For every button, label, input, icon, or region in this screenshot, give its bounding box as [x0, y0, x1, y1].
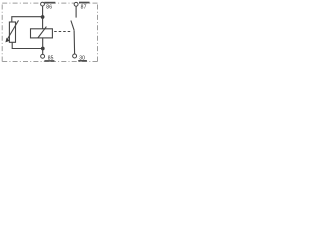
relay coil K1 body: [31, 29, 53, 38]
terminal 30: [73, 54, 77, 58]
resistor adjustment arrow shaft: [8, 20, 19, 38]
terminal 85: [41, 54, 45, 58]
terminal 85 blade bar: [44, 60, 54, 62]
fixed contact wire from 87: [75, 6, 77, 17]
terminal 87: [74, 2, 78, 6]
svg-text:30: 30: [79, 55, 85, 61]
svg-text:85: 85: [48, 56, 54, 62]
svg-text:87: 87: [81, 5, 87, 11]
resistor R (adjustable) body: [9, 22, 15, 42]
wire resistor bottom to bottom rail: [12, 42, 43, 48]
mechanical link (dashed) coil to contact arm: [54, 31, 72, 33]
wire junction A to resistor top: [12, 17, 43, 22]
resistor arrow head: [5, 38, 9, 43]
terminal 87 blade bar: [79, 2, 90, 4]
terminal 86 blade bar: [44, 2, 55, 4]
coil diagonal stroke: [38, 27, 47, 38]
wire contact arm to terminal 30: [73, 30, 76, 54]
wire junction B to terminal 85: [42, 49, 44, 55]
junction dot A: [41, 15, 45, 19]
movable contact arm: [71, 21, 74, 31]
svg-text:86: 86: [46, 5, 52, 11]
wire coil bottom to junction B: [42, 38, 44, 49]
wire junction A to coil top: [42, 17, 44, 29]
relay housing dash-dot border: [2, 3, 97, 61]
terminal 30 blade bar: [78, 60, 87, 62]
wire 86 to junction A: [42, 6, 44, 17]
junction dot B: [41, 47, 45, 51]
terminal 86: [41, 2, 45, 6]
